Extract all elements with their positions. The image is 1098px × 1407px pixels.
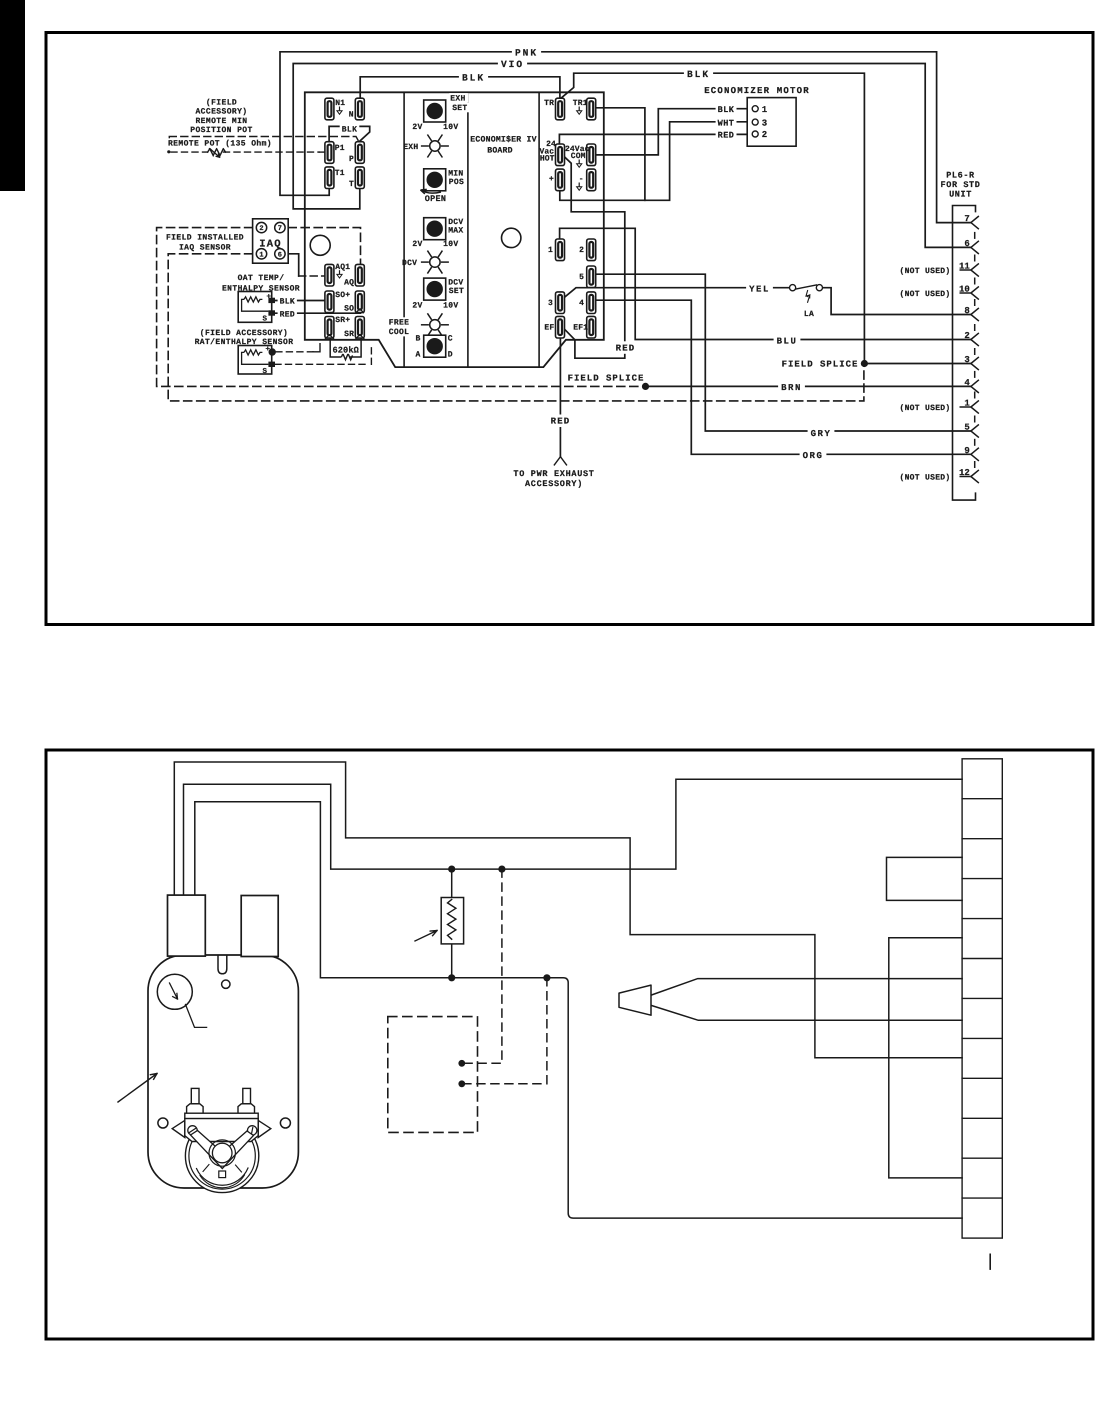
terminal 4 [587,292,596,314]
wire RED: EF terminal loop to 24Vac HOT [564,157,624,358]
svg-text:ECONOMIZER MOTOR: ECONOMIZER MOTOR [704,86,810,96]
plate screws [188,1126,197,1135]
svg-text:TR: TR [544,99,554,108]
dashed wire: remote pot upper lead to P terminal [169,137,358,144]
mounting hole right [280,1118,290,1128]
board internal dividers [403,92,405,367]
potentiometer DCV MAX [424,218,446,240]
svg-text:(NOT USED): (NOT USED) [899,474,950,483]
wire WHT: + terminal and TR1 to economizer motor pin 3 [560,122,752,201]
wire: TR1 to 24v node [596,108,645,201]
conduit left [168,895,206,956]
wire BLK jumper: P1 to P [329,126,370,145]
terminal TR1 [587,98,596,120]
svg-text:1: 1 [964,399,970,409]
svg-text:1: 1 [259,251,263,259]
svg-text:(FIELD ACCESSORY): (FIELD ACCESSORY) [200,329,288,338]
label BLK jumper [340,124,360,134]
terminal 24Vac COM [587,144,596,166]
svg-text:REMOTE POT (135 Ohm): REMOTE POT (135 Ohm) [168,140,272,149]
svg-text:3: 3 [762,118,767,128]
IAQ pin 6 [275,249,285,259]
terminal 5 [587,266,596,288]
regulator body plate [185,1119,258,1142]
svg-text:PNK: PNK [515,47,538,58]
svg-text:POS: POS [449,178,464,187]
terminal + [556,169,565,191]
node: pot lead start dot [167,150,170,153]
PL6-R pin 7 [971,216,979,229]
svg-text:HOT: HOT [540,155,555,164]
terminal T [355,167,364,189]
terminal 24Vac HOT [556,144,565,166]
potentiometer REMOTE POT 135 Ohm zigzag [208,149,226,156]
svg-text:8: 8 [964,306,969,316]
svg-text:SET: SET [452,104,467,113]
rotor inner detail [197,1168,249,1185]
svg-text:12: 12 [959,468,970,478]
svg-text:EXH: EXH [450,94,465,103]
wire BLK: 24Vac COM to economizer motor pin 1 [596,109,752,155]
PL6-R pin 12 [974,461,976,468]
svg-text:BOARD: BOARD [487,147,513,156]
svg-text:2V: 2V [412,302,422,311]
svg-text:A: A [415,351,420,360]
PL6-R pin 9 [974,439,976,446]
wire ORG: board terminal 4 to PL6-R pin 9 [596,300,971,454]
svg-text:620kΩ: 620kΩ [333,345,359,355]
economizer motor box [747,98,796,147]
wire color labels top rails [512,46,541,59]
wire hook to SR+ lead [313,344,320,352]
wire RED: OAT sensor to SO terminal [275,312,360,314]
board mounting hole left [310,235,330,255]
svg-text:VIO: VIO [501,59,524,70]
wire BLU: board terminal 1 to PL6-R pin 2 [560,228,971,339]
label: remote pot 135 ohm [166,138,274,148]
terminal SR [355,317,364,339]
terminal T1 [325,167,334,189]
svg-text:(FIELD: (FIELD [206,99,237,108]
svg-text:SR: SR [344,330,354,339]
EconoMi$er IV board outline [305,92,604,367]
svg-text:BRN: BRN [781,383,802,393]
svg-text:AQ: AQ [344,279,354,288]
rotor bottom tab [219,1171,226,1178]
svg-text:IAQ SENSOR: IAQ SENSOR [179,244,231,253]
dashed wire: lead2 junction to dot A [462,869,502,1063]
wire: actuator lead 2 to strip cell 1 [184,779,963,895]
svg-text:EF1: EF1 [573,324,588,333]
svg-text:C: C [448,335,453,344]
svg-text:TR1: TR1 [573,99,588,108]
svg-text:REMOTE MIN: REMOTE MIN [195,117,247,126]
V yoke [191,1131,254,1169]
sensor OAT temp/enthalpy [238,292,272,323]
svg-text:RAT/ENTHALPY SENSOR: RAT/ENTHALPY SENSOR [195,338,294,347]
wire BLK: OAT sensor to SO+ terminal [275,300,325,302]
regulator top plate [185,1113,258,1118]
arrow pointing at resistor [415,931,437,942]
svg-text:FIELD INSTALLED: FIELD INSTALLED [166,233,244,242]
svg-text:COM: COM [571,152,586,161]
connector PL6-R for std unit [953,206,976,501]
svg-text:OAT TEMP/: OAT TEMP/ [238,274,285,283]
label RED near EF1 [613,341,639,354]
svg-text:SO+: SO+ [335,291,350,300]
svg-text:B: B [415,335,420,344]
svg-text:1: 1 [548,246,553,255]
terminal N [355,98,364,120]
svg-text:2: 2 [964,331,969,341]
PL6-R pin 4 [974,371,976,378]
svg-text:ENTHALPY SENSOR: ENTHALPY SENSOR [222,284,300,293]
potentiometer DCV SET [424,278,446,300]
PL6-R pin 10 [974,278,976,285]
svg-text:COOL: COOL [389,328,409,337]
svg-text:2V: 2V [412,240,422,249]
terminal strip (right side) [962,759,1002,1238]
terminal N1 [325,98,334,120]
bottom panel frame [46,750,1093,1339]
node: junction dots on lead 2 [448,866,455,873]
motor pin 3 [752,119,758,125]
RAT sensor terminal squares [269,348,276,355]
connector IAQ (field installed IAQ sensor) [253,219,289,263]
svg-text:ORG: ORG [803,451,824,461]
svg-text:10: 10 [959,285,970,295]
svg-text:MIN: MIN [448,169,463,178]
IAQ pin 7 [275,222,285,232]
PL6-R pin 6 [974,232,976,239]
board column labels [449,93,468,103]
motor pin 1 [752,106,758,112]
dashed wire: RAT sensor S riser to SR [370,344,372,365]
jumper block ABCD [424,335,446,357]
svg-text:MAX: MAX [448,227,463,236]
svg-text:PL6-R: PL6-R [946,171,975,181]
terminal AQ1 [325,264,334,286]
svg-text:6: 6 [278,251,282,259]
svg-text:2: 2 [762,130,767,140]
wire: IAQ sensor pin 6 [288,254,299,276]
svg-text:BLK: BLK [718,105,735,115]
svg-text:TO PWR EXHAUST: TO PWR EXHAUST [513,469,594,479]
wire: LA switch to PL6-R pin 8 [823,288,971,315]
svg-text:GRY: GRY [811,429,832,439]
svg-text:FIELD SPLICE: FIELD SPLICE [782,359,859,369]
PL6-R pin 3 [974,348,976,355]
PL6-R pin 5 [974,416,976,423]
terminal P1 [325,142,334,164]
wire YEL: board terminal 3 to LA switch [565,288,790,298]
svg-text:4: 4 [964,378,970,388]
svg-text:2V: 2V [412,123,422,132]
svg-text:DCV: DCV [402,259,417,268]
wire BRN: field splice to PL6-R pin 4 [646,385,971,387]
svg-text:EXH: EXH [403,143,418,152]
annotation arrow to valve body [118,1074,157,1103]
terminal lead flare SO [356,309,364,314]
svg-text:ACCESSORY): ACCESSORY) [195,108,247,117]
gauge leader line [186,1005,207,1028]
svg-text:+: + [549,175,554,184]
svg-text:9: 9 [964,446,969,456]
svg-text:AQ1: AQ1 [335,263,350,272]
dashed wire: remote pot lower lead to P1 [224,151,320,153]
svg-text:FIELD SPLICE: FIELD SPLICE [568,374,645,384]
OAT sensor terminal squares [268,298,275,303]
dashed wire: IAQ sensor pin 7 to AQ terminal [288,228,360,267]
svg-text:LA: LA [804,310,814,319]
black sidebar tab [0,0,25,191]
terminal lead flares SR+ and SR [324,335,365,340]
dashed wire: lead3 junction to dot B [462,978,547,1084]
wire VIO: T terminal to PL6-R pin 6 [293,64,971,248]
terminal P [355,142,364,164]
svg-text:10V: 10V [443,240,458,249]
wire labels BLK / RED at OAT sensor [278,296,297,306]
label RED on exhaust wire [548,415,574,428]
motor wire labels [716,105,737,115]
svg-text:7: 7 [278,225,282,233]
conduit right [241,896,278,957]
svg-text:P: P [349,155,354,164]
wire BLK left: N terminal to TR terminal [360,77,560,98]
svg-text:ECONOMI$ER IV: ECONOMI$ER IV [470,136,536,145]
dashed wire: RAT sensor + to SR+ [276,351,313,353]
potentiometer EXH SET [424,100,446,122]
node: dashed box dot A [458,1060,465,1067]
svg-text:(NOT USED): (NOT USED) [899,267,950,276]
terminal 3 [556,292,565,314]
wire: actuator lead 3 to strip cell 12 [195,802,962,1218]
tick mark below strip [989,1254,991,1269]
svg-text:S: S [263,367,268,376]
sensor RAT/enthalpy (field accessory) [238,346,272,375]
svg-text:FREE: FREE [389,319,409,328]
gas valve / actuator body [148,955,298,1188]
svg-text:OPEN: OPEN [425,194,447,204]
svg-text:BLK: BLK [280,298,295,307]
wire PNK: T1 terminal to PL6-R pin 7 [280,52,971,223]
wire: splice to strip cell 6 [652,979,963,995]
svg-text:T: T [349,180,354,189]
node: field splice dot (pin 3) [861,360,868,367]
small hole below notch [222,980,230,988]
svg-text:UNIT: UNIT [949,189,972,199]
terminal - [587,169,596,191]
wire RED: 24Vac HOT to economizer motor pin 2 [559,134,752,144]
wire color labels right side [774,334,801,347]
svg-text:P1: P1 [335,144,345,153]
svg-text:(NOT USED): (NOT USED) [899,290,950,299]
LED DCV [421,251,449,274]
node: field splice dot (BRN) [642,383,649,390]
svg-text:BLU: BLU [777,336,798,346]
svg-text:11: 11 [959,262,970,272]
svg-text:BLK: BLK [462,72,485,83]
PL6-R pin 11 [974,255,976,262]
svg-text:2: 2 [579,246,584,255]
node: junction dots on lead 3 [448,974,455,981]
wire BLK right: TR terminal to field splice to PL6-R pin 3 [561,73,971,363]
splice cap (wire nut) [619,985,651,1015]
dashed wire: remote pot lower lead left [171,151,208,153]
board mounting hole center [502,228,521,247]
wire GRY: board terminal 5 to PL6-R pin 5 [596,274,971,431]
svg-text:T1: T1 [335,169,345,178]
dashed wire: IAQ sensor pin 6 to AQ1 terminal [299,275,325,277]
pressure gauge dial [157,974,192,1009]
svg-text:(NOT USED): (NOT USED) [899,404,950,413]
potentiometer MIN POS [424,169,446,191]
resistor 620k ohm between SR+ and SR [330,338,361,357]
svg-text:SR+: SR+ [335,316,350,325]
regulator bolts [191,1088,199,1103]
terminal 2 [587,239,596,261]
svg-text:D: D [448,351,453,360]
label YEL + LA [746,283,773,296]
wire: splice to strip cell 7 [652,1006,963,1021]
IAQ pin 1 [256,249,266,259]
svg-text:IAQ: IAQ [259,239,282,251]
terminal TR [556,98,565,120]
wire: strip cell 3 to cell 4 link [887,857,963,900]
motor pin 2 [752,131,758,137]
dashed accessory box [388,1017,478,1133]
IAQ pin 2 [256,222,266,232]
node: dashed box dot B [458,1080,465,1087]
svg-text:SET: SET [449,287,464,296]
terminal SO [355,291,364,313]
svg-text:2: 2 [259,225,263,233]
svg-text:3: 3 [964,355,969,365]
terminal AQ [355,264,364,286]
dashed wire: IAQ sensor pin 1 to field splice pin 3 [168,254,864,401]
svg-text:7: 7 [964,214,969,224]
terminal SR+ [325,317,334,339]
side wings [172,1120,185,1137]
terminal EF [556,316,565,338]
wire: pot lead into P1 [319,151,325,153]
svg-text:S: S [263,315,268,324]
rotor outer circles [185,1119,258,1192]
svg-text:N1: N1 [335,99,345,108]
PL6-R pin 8 [974,299,976,306]
svg-text:POSITION POT: POSITION POT [190,126,252,135]
svg-text:SO: SO [344,304,354,313]
svg-text:WHT: WHT [718,119,735,129]
svg-text:10V: 10V [443,123,458,132]
terminal 1 [556,239,565,261]
dashed wire: IAQ sensor pin 2 to field splice BRN [157,228,643,387]
svg-text:RED: RED [616,343,636,353]
top notch [218,956,227,974]
svg-text:3: 3 [548,299,553,308]
svg-text:5: 5 [579,273,584,282]
svg-text:ACCESSORY): ACCESSORY) [525,479,583,489]
svg-text:4: 4 [579,299,584,308]
svg-text:5: 5 [964,423,969,433]
svg-text:EF: EF [544,324,554,333]
mounting hole left [158,1118,168,1128]
svg-text:BLK: BLK [687,69,710,80]
dashed wire: RAT sensor S to SR [275,363,368,365]
svg-text:1: 1 [762,105,768,115]
svg-text:YEL: YEL [749,285,770,295]
svg-text:BLK: BLK [342,125,358,134]
wire RED: EF terminal to power exhaust accessory [559,338,561,457]
svg-text:RED: RED [280,310,295,319]
LED EXH [421,135,449,158]
svg-text:N: N [349,111,354,120]
svg-text:RED: RED [551,417,571,427]
terminal SO+ [325,291,334,313]
open arrow [421,190,442,193]
resistor (bleed) [451,869,453,897]
wire: strip cell 5 to cell 11 link [889,938,962,1178]
switch LA (low ambient lockout) [790,285,796,291]
svg-text:RED: RED [718,131,735,141]
terminal EF1 [587,316,596,338]
connector chevron: to pwr exhaust [554,457,566,465]
svg-text:6: 6 [964,239,969,249]
wire: actuator lead 1 to strip cell 8 [174,762,962,1058]
top panel frame [46,33,1093,625]
PL6-R pin 2 [974,324,976,331]
svg-text:10V: 10V [443,302,458,311]
PL6-R pin 1 [974,392,976,399]
LED FREE COOL [421,313,449,336]
